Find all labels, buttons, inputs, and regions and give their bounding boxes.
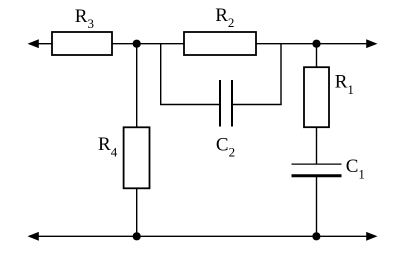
svg-text:R4: R4: [98, 134, 118, 159]
wire R1 to C1: [316, 127, 318, 164]
svg-text:C1: C1: [346, 156, 365, 181]
resistor R4: [124, 127, 150, 188]
resistor R3: [52, 32, 112, 55]
svg-text:R3: R3: [75, 6, 94, 31]
wire C2 branch right vertical: [280, 44, 282, 105]
wire C2 branch left vertical: [160, 44, 162, 105]
svg-text:R2: R2: [215, 5, 234, 30]
svg-text:R1: R1: [335, 72, 354, 97]
capacitor C1: [292, 164, 342, 176]
node junction bottom-left: [133, 232, 141, 240]
wire top rail right segment with arrow: [256, 39, 378, 48]
capacitor C2: [220, 80, 232, 127]
wire R1 top: [316, 44, 318, 68]
wire C1 bottom: [316, 177, 318, 236]
wire C2 branch left horizontal: [160, 104, 220, 106]
resistor R1: [304, 67, 329, 127]
svg-text:C2: C2: [216, 134, 235, 159]
node junction top-right: [312, 40, 320, 48]
node junction bottom-right: [312, 232, 320, 240]
resistor R2: [184, 32, 256, 55]
wire R4 bottom: [136, 188, 138, 236]
wire C2 branch right horizontal: [232, 104, 282, 106]
wire bottom rail with arrows: [28, 232, 378, 241]
wire R4 top: [136, 44, 138, 128]
node junction top-left: [133, 40, 141, 48]
wire top rail left segment with arrow: [28, 39, 53, 48]
wire top rail middle segment (R3 to R2): [112, 43, 185, 45]
